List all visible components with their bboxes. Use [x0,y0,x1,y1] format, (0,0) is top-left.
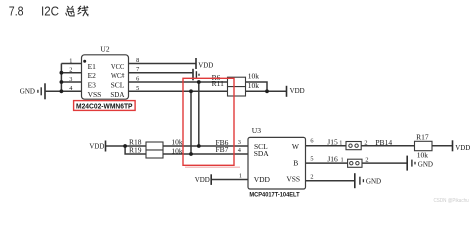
junction pullup VDD [265,89,269,93]
wire left bus vertical [60,64,62,92]
wire VCC pin8 [129,63,196,65]
svg-text:FB7: FB7 [216,145,229,154]
wire R11 output to VDD [246,90,287,92]
title hanzi zong [66,6,74,16]
power VDD at U2 pin8 [196,58,214,70]
wire FB7 net [163,153,248,155]
wire branch to R19 [125,146,146,154]
wire U3 VDD pin1 [212,179,248,181]
red highlight box part number U2 [74,101,136,111]
svg-text:2: 2 [310,173,313,180]
title hanzi xian [78,6,88,16]
svg-text:VDD: VDD [198,61,214,70]
junction E3 bus [60,80,64,84]
svg-text:E2: E2 [88,71,97,80]
wire SCL pin6 [129,81,228,83]
wire E1 [61,63,81,65]
svg-text:E1: E1 [88,62,97,71]
svg-text:10k: 10k [248,81,260,90]
resistor R11 [212,79,260,96]
ground at U3 VSS [355,173,382,188]
svg-text:SCL: SCL [111,81,125,90]
svg-text:1: 1 [239,172,242,179]
svg-text:M24C02-WMN6TP: M24C02-WMN6TP [76,103,133,110]
red halo under bus box [185,166,240,168]
svg-text:GND: GND [20,87,36,96]
svg-text:VDD: VDD [455,143,471,152]
power VDD left of R18 [89,141,105,152]
svg-text:R11: R11 [212,79,224,88]
svg-text:SDA: SDA [254,149,270,158]
svg-text:1: 1 [341,157,344,164]
svg-text:GND: GND [418,159,434,168]
svg-text:3: 3 [238,139,241,146]
svg-text:VDD: VDD [195,175,211,184]
svg-text:SDA: SDA [110,90,125,99]
svg-text:VDD: VDD [89,142,105,151]
junction SDA tap [189,89,193,93]
wire J15 to R17 [361,145,414,147]
svg-text:J15: J15 [327,138,338,147]
wire SDA vertical drop [190,91,192,154]
power VDD right of R17 [453,140,471,152]
svg-text:WC#: WC# [111,71,125,80]
svg-text:VSS: VSS [286,174,300,183]
svg-text:U3: U3 [252,126,261,135]
svg-text:10k: 10k [417,150,429,159]
ground at U2 pin7 [193,69,199,81]
op U2 eeprom body [82,44,129,99]
svg-text:6: 6 [310,138,313,145]
wire E3 [61,81,81,83]
U2 pin numbers left [69,57,73,92]
svg-text:VSS: VSS [88,90,102,99]
svg-text:W: W [292,142,300,151]
svg-text:10k: 10k [171,146,183,155]
svg-text:GND: GND [366,176,382,185]
svg-text:MCP4017T-104ELT: MCP4017T-104ELT [249,192,299,199]
svg-text:VDD: VDD [254,175,271,184]
svg-text:5: 5 [310,155,313,162]
svg-text:E3: E3 [88,81,97,90]
svg-text:PB14: PB14 [375,138,392,147]
svg-text:B: B [293,158,298,167]
ground right of J16 [407,156,433,171]
svg-text:10k: 10k [248,71,260,80]
svg-text:2: 2 [365,156,368,163]
svg-text:J16: J16 [327,155,338,164]
svg-text:U2: U2 [100,44,109,53]
power VDD at U3 pin1 [195,174,212,185]
svg-text:VDD: VDD [290,86,306,95]
svg-text:CSDN @Pikachu: CSDN @Pikachu [434,198,469,204]
resistor R19 [129,146,183,159]
wire J16 to GND [362,162,407,164]
title 7.8 I2C [9,4,59,18]
junction FB7 [189,152,193,156]
wire R17 to VDD [432,145,452,147]
digital pot U3 body [248,126,306,189]
junction SCL tap [197,80,201,84]
wire R6 output [246,82,268,91]
wire B pin5 to J16 [306,162,348,164]
svg-text:10k: 10k [171,138,183,147]
resistor R6 [212,71,260,86]
wire WC# pin7 [129,72,193,74]
resistor R17 [415,133,433,160]
wire FB6 net [163,145,248,147]
junction FB6 [197,144,201,148]
svg-text:2: 2 [364,140,367,147]
svg-text:R17: R17 [416,133,429,142]
svg-text:1: 1 [339,140,342,147]
junction R18 R19 [123,144,127,148]
svg-text:VCC: VCC [111,62,125,71]
wire SCL vertical drop [198,82,200,146]
svg-text:R19: R19 [129,146,142,155]
svg-text:I2C: I2C [41,4,59,18]
wire VDD to R18 [106,145,146,147]
junction VSS bus [60,89,64,93]
connector J16 [327,155,368,168]
wire VSS pin2 to GND [306,180,355,182]
wire SDA pin5 [129,90,228,92]
U2 pin numbers right [136,57,139,92]
svg-text:7.8: 7.8 [9,4,24,18]
ground GND left of U2 [38,83,45,99]
wire W pin6 to J15 [306,145,347,147]
junction E2 bus [60,71,64,75]
power VDD right of R11 [287,86,306,97]
wire E2 [61,72,81,74]
wire VSS to GND [46,90,82,92]
red highlight box bus [183,78,234,165]
resistor R18 [129,138,183,150]
connector J15 [327,138,367,150]
